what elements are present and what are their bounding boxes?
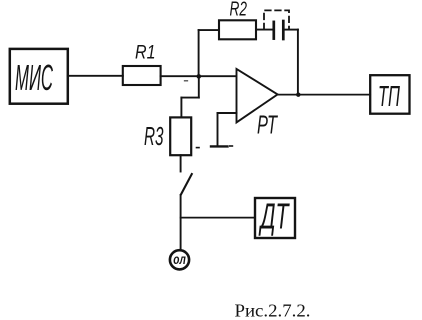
wire node A down xyxy=(198,76,200,97)
svg-text:ТП: ТП xyxy=(378,81,401,113)
wire feedback top-left horizontal xyxy=(199,29,219,31)
motor OL circle xyxy=(170,250,189,269)
node A junction dot xyxy=(197,74,202,79)
block DT (ДТ) xyxy=(255,198,295,238)
ground side speck right xyxy=(230,145,233,147)
wire feedback right vertical xyxy=(297,30,299,95)
wire R3 bottom lead xyxy=(180,155,182,171)
svg-text:Рис.2.7.2.: Рис.2.7.2. xyxy=(235,300,311,320)
wire node C to DT xyxy=(181,217,255,219)
wire node A to op-amp input xyxy=(199,75,237,77)
capacitor C left plate xyxy=(272,22,275,39)
wire feedback left vertical xyxy=(198,30,200,76)
svg-text:РТ: РТ xyxy=(257,110,278,140)
resistor R1 xyxy=(123,66,161,85)
svg-text:R3: R3 xyxy=(144,121,164,151)
wire switch to OL circle xyxy=(180,195,182,250)
wire jog left xyxy=(181,97,198,99)
svg-text:R2: R2 xyxy=(230,0,248,21)
wire op-amp lower input stub xyxy=(218,112,237,114)
svg-text:ДТ: ДТ xyxy=(258,196,290,237)
ground side speck left xyxy=(197,147,200,149)
wire МИС to R1 xyxy=(68,75,123,77)
wire down to ground xyxy=(217,113,219,146)
node B output junction dot xyxy=(296,93,300,97)
switch S1 blade xyxy=(181,174,192,195)
svg-text:R1: R1 xyxy=(135,43,156,64)
ink speck under wire xyxy=(185,80,188,82)
block TP (ТП) xyxy=(370,75,409,114)
wire capacitor to corner xyxy=(285,29,298,31)
wire R2 to capacitor xyxy=(256,29,273,31)
resistor R2 xyxy=(219,20,256,39)
capacitor C right plate xyxy=(282,21,285,39)
wire op-amp output to TP xyxy=(278,94,371,96)
op-amp U1 (РТ) xyxy=(237,69,278,123)
wire down to R3 xyxy=(180,98,182,118)
block MIS (МИС) xyxy=(10,49,68,104)
ground xyxy=(211,145,228,147)
resistor R3 xyxy=(170,117,191,155)
dashed bypass link over capacitor xyxy=(264,10,289,29)
wire R1 to node A xyxy=(161,75,199,77)
svg-text:ол: ол xyxy=(173,252,186,267)
svg-text:МИС: МИС xyxy=(15,57,53,98)
